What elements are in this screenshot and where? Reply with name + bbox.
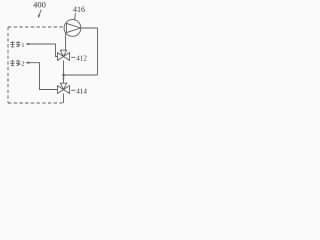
svg-text:414: 414 [76,87,87,95]
wire valve 414 drain [63,93,65,103]
leader arrow for 400 [39,10,41,16]
wire feed 1 [29,44,58,57]
wire pump outlet [81,27,98,29]
svg-text:400: 400 [33,0,46,10]
leader line 416 [74,13,77,20]
wire pump to valve 412 [65,33,67,50]
pump impeller triangle [66,23,80,32]
arrow to reagent 1 [25,43,29,45]
wire return to junction [64,74,98,76]
flow arrow down [62,78,64,81]
dashed module boundary top edge [8,26,64,28]
arrow to reagent 2 [25,62,29,64]
svg-text:416: 416 [73,5,85,14]
dashed module boundary bottom edge [8,102,64,104]
junction dot [62,74,65,77]
valve V414 [58,86,64,94]
label 412 [71,56,75,58]
svg-text:412: 412 [76,54,87,62]
wire feed 2 [29,63,58,90]
node reagent-1 label [10,41,20,47]
valve V412 [58,53,64,61]
pump U416 circle [64,20,81,37]
svg-text:2: 2 [21,61,24,68]
label 414 [71,89,75,91]
wire valve 412 to valve 414 [63,60,65,83]
node reagent-2 label [10,60,20,66]
wire right return down [97,28,99,75]
svg-text:1: 1 [21,42,24,49]
dashed module boundary left edge [7,27,9,103]
